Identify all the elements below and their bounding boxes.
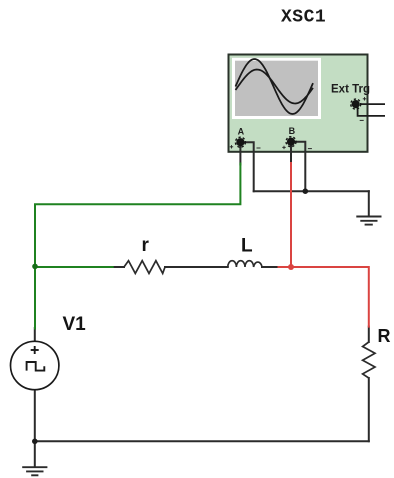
svg-text:Ext Trg: Ext Trg — [331, 84, 370, 96]
svg-text:XSC1: XSC1 — [281, 8, 326, 28]
svg-text:A: A — [238, 127, 245, 137]
svg-text:B: B — [289, 126, 296, 136]
svg-text:r: r — [142, 235, 150, 256]
svg-text:L: L — [241, 236, 253, 257]
svg-text:R: R — [378, 326, 391, 346]
svg-text:V1: V1 — [63, 314, 87, 335]
